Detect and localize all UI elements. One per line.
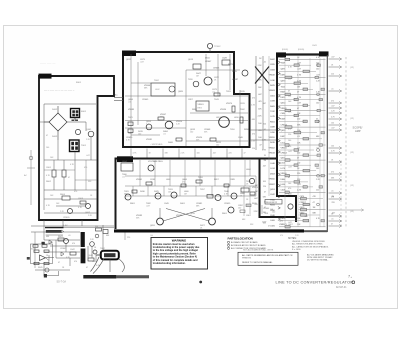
svg-text:100: 100 xyxy=(258,137,261,139)
svg-text:TP602: TP602 xyxy=(214,46,221,48)
svg-text:220: 220 xyxy=(316,190,319,192)
svg-text:C601: C601 xyxy=(46,167,52,169)
svg-text:CR634: CR634 xyxy=(281,124,288,126)
svg-text:47: 47 xyxy=(86,267,88,269)
svg-text:.01: .01 xyxy=(68,235,71,237)
svg-text:470: 470 xyxy=(252,134,255,136)
svg-text:100: 100 xyxy=(316,103,319,105)
svg-text:100: 100 xyxy=(138,133,141,135)
svg-text:470: 470 xyxy=(258,101,261,103)
svg-text:.01: .01 xyxy=(331,89,334,91)
svg-text:470: 470 xyxy=(84,167,87,169)
svg-text:A2 REGULATOR CIRCUIT BOARD: A2 REGULATOR CIRCUIT BOARD xyxy=(231,244,266,247)
svg-text:100: 100 xyxy=(258,123,261,125)
svg-text:47: 47 xyxy=(264,191,266,193)
svg-text:K = 1000: K = 1000 xyxy=(292,249,301,251)
svg-text:220: 220 xyxy=(332,202,335,204)
svg-text:AMP: AMP xyxy=(355,129,361,133)
svg-text:K601: K601 xyxy=(81,111,87,113)
svg-text:100: 100 xyxy=(216,144,219,146)
svg-text:DC WITH NO SIGNAL.: DC WITH NO SIGNAL. xyxy=(307,259,329,262)
svg-text:2.2K: 2.2K xyxy=(297,81,302,83)
svg-text:220: 220 xyxy=(297,173,300,175)
svg-text:220: 220 xyxy=(229,153,232,155)
svg-text:THIS KIT.: THIS KIT. xyxy=(242,258,252,260)
svg-text:1M: 1M xyxy=(196,75,199,77)
svg-text:CR605: CR605 xyxy=(142,99,149,101)
svg-text:VR602: VR602 xyxy=(269,147,276,149)
svg-text:REFER TO SERVICE MANUAL.: REFER TO SERVICE MANUAL. xyxy=(242,261,273,264)
svg-text:100: 100 xyxy=(238,207,241,209)
svg-text:1M: 1M xyxy=(313,207,316,209)
svg-text:100: 100 xyxy=(331,146,334,148)
svg-text:(12): (12) xyxy=(350,67,354,69)
svg-text:LINE TO DC CONVERTER/REGULATOR: LINE TO DC CONVERTER/REGULATOR xyxy=(276,281,354,285)
svg-text:F601: F601 xyxy=(76,82,82,84)
svg-text:CR697: CR697 xyxy=(300,202,307,204)
svg-text:47: 47 xyxy=(288,177,290,179)
svg-text:470: 470 xyxy=(313,196,316,198)
svg-text:.01: .01 xyxy=(316,147,319,149)
svg-text:470: 470 xyxy=(74,191,77,193)
svg-text:220: 220 xyxy=(95,226,98,228)
svg-text:1M: 1M xyxy=(255,185,258,187)
svg-text:100: 100 xyxy=(190,131,193,133)
svg-text:VOLTAGE REG: VOLTAGE REG xyxy=(148,160,163,163)
svg-text:(12): (12) xyxy=(350,185,354,187)
svg-text:470: 470 xyxy=(288,188,291,190)
svg-text:CR659: CR659 xyxy=(224,203,231,205)
svg-text:220: 220 xyxy=(127,237,130,239)
svg-text:92-547-01: 92-547-01 xyxy=(336,287,347,289)
svg-text:VR674: VR674 xyxy=(226,103,233,105)
svg-text:.047: .047 xyxy=(288,166,292,168)
svg-text:.047: .047 xyxy=(331,128,335,130)
svg-text:VR631: VR631 xyxy=(281,147,288,149)
svg-text:REG: REG xyxy=(198,108,203,110)
svg-text:470: 470 xyxy=(72,243,75,245)
svg-text:.047: .047 xyxy=(297,184,301,186)
svg-text:100: 100 xyxy=(331,123,334,125)
svg-text:R602: R602 xyxy=(46,181,52,183)
svg-text:VR650: VR650 xyxy=(269,179,276,181)
svg-text:.047: .047 xyxy=(146,205,150,207)
svg-text:ALL CAPACITORS IN MICROFARADS.: ALL CAPACITORS IN MICROFARADS. xyxy=(292,245,329,248)
svg-text:UNLESS OTHERWISE SPECIFIED: UNLESS OTHERWISE SPECIFIED xyxy=(292,241,325,243)
svg-text:CR607: CR607 xyxy=(205,61,212,63)
svg-text:47: 47 xyxy=(244,153,246,155)
svg-text:220: 220 xyxy=(263,186,266,188)
svg-text:47: 47 xyxy=(264,207,266,209)
svg-text:Q601: Q601 xyxy=(86,129,92,131)
svg-text:CR641: CR641 xyxy=(60,248,67,250)
svg-text:VR681: VR681 xyxy=(146,139,153,141)
svg-text:– SWITCHED: – SWITCHED xyxy=(150,144,163,146)
svg-text:100: 100 xyxy=(150,235,153,237)
svg-text:470: 470 xyxy=(288,146,291,148)
svg-text:100: 100 xyxy=(46,147,49,149)
svg-text:220: 220 xyxy=(288,96,291,98)
svg-text:.01: .01 xyxy=(297,136,300,138)
svg-text:R604: R604 xyxy=(60,194,66,196)
svg-text:47: 47 xyxy=(259,144,261,146)
svg-text:220: 220 xyxy=(297,153,300,155)
svg-text:VR636: VR636 xyxy=(220,109,227,111)
svg-text:47: 47 xyxy=(331,224,333,226)
svg-text:.047: .047 xyxy=(86,155,90,157)
svg-text:VR689: VR689 xyxy=(128,109,135,111)
svg-text:4.7K: 4.7K xyxy=(297,97,302,99)
svg-text:470: 470 xyxy=(331,172,334,174)
svg-text:troubleshooting information.: troubleshooting information. xyxy=(153,262,186,265)
svg-text:47: 47 xyxy=(58,262,60,264)
svg-text:.047: .047 xyxy=(297,63,301,65)
svg-text:CR606: CR606 xyxy=(213,68,220,70)
svg-text:470: 470 xyxy=(288,128,291,130)
svg-text:100: 100 xyxy=(288,140,291,142)
svg-text:220: 220 xyxy=(258,130,261,132)
svg-text:2.2K: 2.2K xyxy=(297,190,302,192)
svg-text:VR679: VR679 xyxy=(252,187,259,189)
svg-text:(D601): (D601) xyxy=(282,49,288,51)
svg-text:.047: .047 xyxy=(263,165,267,167)
svg-text:VR600: VR600 xyxy=(281,173,288,175)
svg-text:470: 470 xyxy=(331,101,334,103)
svg-text:Q602: Q602 xyxy=(85,212,91,214)
svg-text:47: 47 xyxy=(68,177,70,179)
svg-text:.01: .01 xyxy=(264,61,267,63)
svg-text:VR659: VR659 xyxy=(269,137,276,139)
svg-text:47: 47 xyxy=(313,202,315,204)
svg-text:220: 220 xyxy=(263,124,266,126)
svg-text:.01: .01 xyxy=(122,176,125,178)
svg-text:VR684: VR684 xyxy=(176,215,183,217)
svg-text:ALL PARTS NUMBERED ABOVE 600 A: ALL PARTS NUMBERED ABOVE 600 ARE PART OF xyxy=(242,254,293,257)
svg-text:220: 220 xyxy=(297,119,300,121)
svg-text:ALL RESISTORS ARE IN OHMS.: ALL RESISTORS ARE IN OHMS. xyxy=(292,243,323,246)
svg-text:(12): (12) xyxy=(350,211,354,213)
svg-text:100: 100 xyxy=(197,153,200,155)
svg-text:.01: .01 xyxy=(212,91,215,93)
svg-text:.01: .01 xyxy=(297,147,300,149)
svg-text:.047: .047 xyxy=(213,153,217,155)
svg-text:VR632: VR632 xyxy=(269,75,276,77)
svg-text:100: 100 xyxy=(297,163,300,165)
svg-text:.047: .047 xyxy=(254,198,258,200)
svg-text:PARTS/LOCATION: PARTS/LOCATION xyxy=(228,237,253,241)
svg-text:.047: .047 xyxy=(297,69,301,71)
svg-text:Q653: Q653 xyxy=(270,189,276,191)
svg-text:.047: .047 xyxy=(331,57,335,59)
svg-text:100: 100 xyxy=(316,168,319,170)
svg-text:47: 47 xyxy=(48,261,50,263)
svg-text:1M: 1M xyxy=(184,193,187,195)
svg-text:.047: .047 xyxy=(288,151,292,153)
svg-text:C603: C603 xyxy=(78,198,84,200)
svg-text:470: 470 xyxy=(74,261,77,263)
svg-text:220: 220 xyxy=(252,148,255,150)
svg-text:SO-T GA: SO-T GA xyxy=(57,281,67,284)
svg-text:100: 100 xyxy=(288,183,291,185)
svg-text:1M: 1M xyxy=(297,87,300,89)
svg-text:—— —– —: —— —– — xyxy=(40,61,55,65)
svg-text:220: 220 xyxy=(160,116,163,118)
svg-text:.047: .047 xyxy=(140,61,144,63)
svg-text:VR671: VR671 xyxy=(281,224,288,226)
svg-text:220: 220 xyxy=(254,204,257,206)
svg-text:.01: .01 xyxy=(331,191,334,193)
svg-text:220: 220 xyxy=(331,74,334,76)
svg-text:A1 MAIN CIRCUIT BOARD: A1 MAIN CIRCUIT BOARD xyxy=(231,241,258,244)
svg-text:NOTES:: NOTES: xyxy=(288,238,297,240)
svg-text:T602: T602 xyxy=(154,80,160,82)
svg-text:VR687: VR687 xyxy=(232,79,239,81)
svg-text:.01: .01 xyxy=(331,219,334,221)
svg-text:VR601: VR601 xyxy=(198,104,205,106)
svg-text:100: 100 xyxy=(92,261,95,263)
svg-text:470: 470 xyxy=(182,181,185,183)
svg-text:47: 47 xyxy=(288,91,290,93)
svg-text:(12): (12) xyxy=(350,152,354,154)
svg-text:47: 47 xyxy=(46,135,48,137)
svg-text:220: 220 xyxy=(288,134,291,136)
svg-text:.047: .047 xyxy=(258,94,262,96)
svg-text:VR661: VR661 xyxy=(136,179,143,181)
svg-text:T601: T601 xyxy=(81,145,87,147)
svg-text:CR605: CR605 xyxy=(63,217,70,219)
svg-text:R645: R645 xyxy=(38,267,43,269)
svg-text:.047: .047 xyxy=(331,106,335,108)
svg-text:VR689: VR689 xyxy=(281,108,288,110)
svg-text:(12): (12) xyxy=(350,118,354,120)
svg-text:(D605): (D605) xyxy=(298,49,304,51)
svg-text:1M: 1M xyxy=(255,191,258,193)
svg-text:–– – ––– –– – –– –– ––– –: –– – ––– –– – –– –– ––– – xyxy=(44,89,75,92)
svg-text:D602: D602 xyxy=(52,109,58,111)
svg-text:VR634: VR634 xyxy=(269,153,276,155)
svg-text:VR687: VR687 xyxy=(269,184,276,186)
svg-text:470: 470 xyxy=(331,197,334,199)
svg-text:220: 220 xyxy=(297,179,300,181)
svg-text:100: 100 xyxy=(316,69,319,71)
svg-text:D603: D603 xyxy=(52,136,58,138)
svg-text:.01: .01 xyxy=(288,79,291,81)
svg-text:AC: AC xyxy=(24,174,27,177)
svg-text:NOT ALL BOARDS IN ALL UNITS: NOT ALL BOARDS IN ALL UNITS xyxy=(243,248,274,251)
svg-text:.01: .01 xyxy=(163,133,166,135)
svg-text:47: 47 xyxy=(150,181,152,183)
svg-text:.047: .047 xyxy=(297,103,301,105)
svg-text:.01: .01 xyxy=(128,101,131,103)
svg-text:470: 470 xyxy=(280,235,283,237)
svg-text:.047: .047 xyxy=(288,222,292,224)
svg-text:4.7K: 4.7K xyxy=(297,75,302,77)
svg-text:VR663: VR663 xyxy=(269,90,276,92)
svg-text:470: 470 xyxy=(252,98,255,100)
svg-text:CR664: CR664 xyxy=(281,153,288,155)
